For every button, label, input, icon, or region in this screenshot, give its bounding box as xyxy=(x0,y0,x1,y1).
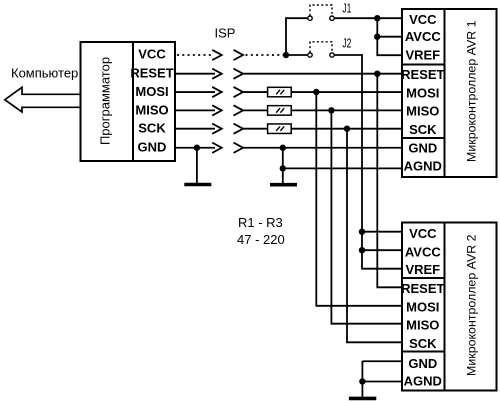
svg-text:GND: GND xyxy=(138,140,167,155)
svg-text:RESET: RESET xyxy=(401,281,444,296)
svg-text:MOSI: MOSI xyxy=(135,84,168,99)
svg-text:AGND: AGND xyxy=(404,374,442,389)
svg-text:Компьютер: Компьютер xyxy=(11,66,78,81)
svg-text:VCC: VCC xyxy=(409,12,437,27)
svg-text:Микроконтроллер AVR 1: Микроконтроллер AVR 1 xyxy=(464,20,478,162)
svg-text:GND: GND xyxy=(408,356,437,371)
svg-text:MOSI: MOSI xyxy=(406,85,439,100)
svg-text:RESET: RESET xyxy=(401,67,444,82)
svg-text:J1: J1 xyxy=(342,0,351,15)
svg-text:AVCC: AVCC xyxy=(405,244,441,259)
svg-text:SCK: SCK xyxy=(409,336,437,351)
svg-text:VCC: VCC xyxy=(138,47,166,62)
svg-text:MOSI: MOSI xyxy=(406,299,439,314)
svg-text:AVCC: AVCC xyxy=(405,29,441,44)
svg-text:ISP: ISP xyxy=(215,25,236,40)
svg-text:47 - 220: 47 - 220 xyxy=(237,232,285,247)
svg-text:MISO: MISO xyxy=(406,318,439,333)
svg-text:VREF: VREF xyxy=(405,262,440,277)
svg-text:J2: J2 xyxy=(342,36,351,51)
svg-text:VREF: VREF xyxy=(405,48,440,63)
svg-text:Микроконтроллер AVR 2: Микроконтроллер AVR 2 xyxy=(464,234,478,376)
svg-text:AGND: AGND xyxy=(404,159,442,174)
svg-text:SCK: SCK xyxy=(409,122,437,137)
svg-text:RESET: RESET xyxy=(130,66,173,81)
svg-text:SCK: SCK xyxy=(138,121,166,136)
svg-text:Программатор: Программатор xyxy=(98,57,113,145)
svg-text:MISO: MISO xyxy=(406,104,439,119)
svg-text:VCC: VCC xyxy=(409,226,437,241)
svg-text:GND: GND xyxy=(408,141,437,156)
svg-text:R1 - R3: R1 - R3 xyxy=(238,215,283,230)
svg-text:MISO: MISO xyxy=(135,102,168,117)
